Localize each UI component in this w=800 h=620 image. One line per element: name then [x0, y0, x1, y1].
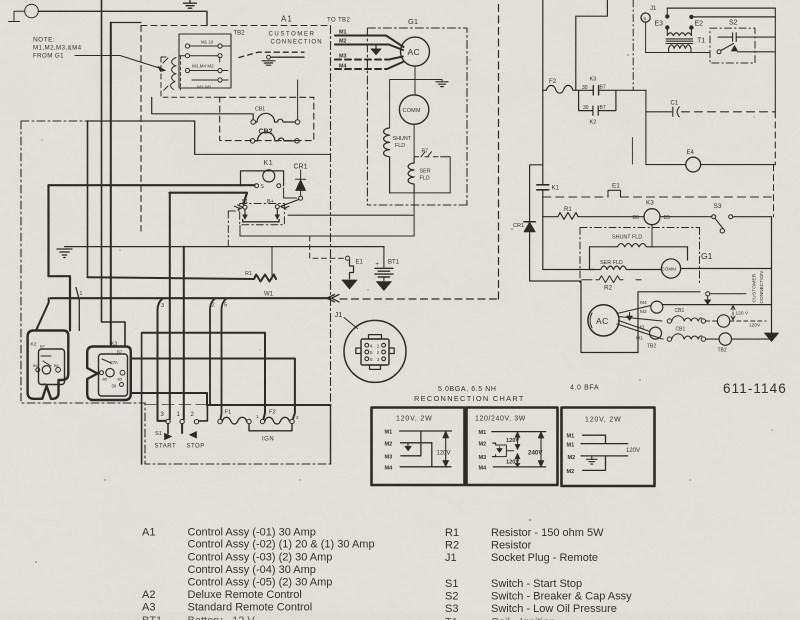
svg-text:R2: R2 [604, 285, 613, 292]
svg-text:E3: E3 [655, 21, 664, 28]
svg-text:120V: 120V [626, 448, 640, 454]
svg-text:M2,M4 M2: M2,M4 M2 [192, 64, 214, 69]
svg-text:3: 3 [377, 357, 380, 362]
svg-text:A1: A1 [281, 15, 293, 24]
breaker dashed box [220, 97, 314, 140]
svg-text:A1: A1 [142, 527, 155, 539]
battery BT1 [383, 247, 385, 268]
wire K3 STA [131, 359, 295, 419]
wire M1 to TB2 [335, 36, 404, 48]
svg-text:RECONNECTION CHART: RECONNECTION CHART [414, 394, 525, 403]
wire G1 bottom bus [390, 192, 451, 194]
boundary A1 right edge / remote boundary [330, 26, 332, 406]
note leader arrow [75, 56, 163, 70]
svg-text:120V: 120V [437, 451, 451, 457]
svg-text:M1 10: M1 10 [201, 40, 214, 45]
svg-text:CUSTOMER: CUSTOMER [269, 32, 316, 38]
leads M4 M2 M3 M1 [617, 306, 663, 340]
wire AC to COMM [414, 66, 416, 95]
svg-text:2: 2 [212, 303, 215, 309]
terminal TB2 lower [650, 327, 662, 339]
wire B+ to G1 [288, 214, 413, 216]
series field coil [408, 157, 414, 193]
wire inner corner [111, 22, 141, 24]
svg-text:S2: S2 [445, 591, 458, 603]
resistor R7 dashed [414, 152, 446, 157]
wire A1 lower boundary [88, 121, 195, 154]
wire CR1 branch [530, 165, 581, 281]
svg-text:K3: K3 [646, 200, 654, 207]
svg-text:TB2: TB2 [718, 348, 727, 354]
svg-text:120/240V, 3W: 120/240V, 3W [475, 416, 526, 423]
parts list right column [445, 527, 632, 620]
svg-text:Control Assy (-03) (2) 30 Amp: Control Assy (-03) (2) 30 Amp [188, 552, 333, 564]
wire terminal2 to ign bus [199, 405, 208, 421]
lamp E4 [646, 164, 686, 166]
wire slant from bus to K2 [36, 298, 49, 330]
svg-text:CONNECTION: CONNECTION [759, 271, 765, 304]
svg-text:B6: B6 [103, 378, 108, 382]
svg-text:M2: M2 [385, 441, 393, 447]
K1 assembly dash-dot box [240, 204, 285, 225]
svg-text:M2: M2 [568, 455, 576, 461]
svg-text:A2: A2 [142, 589, 155, 601]
svg-text:4.0 BFA: 4.0 BFA [570, 385, 599, 392]
svg-text:K2: K2 [31, 342, 37, 348]
svg-text:M2: M2 [339, 39, 347, 45]
ground at G1 [415, 80, 443, 82]
wire 2 jumper [210, 299, 215, 405]
svg-text:5: 5 [224, 303, 227, 309]
svg-text:B5: B5 [664, 215, 670, 221]
contact K1 right [537, 185, 549, 190]
svg-text:Control Assy (-01) 30 Amp: Control Assy (-01) 30 Amp [188, 527, 316, 539]
svg-text:S1: S1 [242, 199, 249, 205]
svg-text:R1: R1 [445, 527, 459, 539]
svg-text:COMM: COMM [403, 108, 421, 114]
svg-text:K3: K3 [590, 77, 597, 83]
resistor R2 dashed [582, 276, 641, 283]
circuit breaker CB1 [251, 120, 256, 125]
relay K2 inner [39, 349, 65, 385]
wire A2 boundary [152, 97, 254, 119]
svg-text:M3: M3 [385, 454, 393, 460]
svg-text:Standard Remote Control: Standard Remote Control [188, 602, 313, 614]
svg-text:1?: 1? [42, 383, 46, 387]
svg-text:120 V: 120 V [736, 311, 749, 317]
svg-text:IGN: IGN [262, 437, 274, 443]
wire left drop [645, 90, 647, 164]
contact B+ [275, 205, 279, 209]
node wire to E1 bus [240, 235, 414, 237]
svg-text:Socket Plug - Remote: Socket Plug - Remote [491, 552, 598, 564]
svg-text:2: 2 [377, 350, 380, 355]
solenoid plunger arrows [245, 209, 277, 215]
svg-text:K1: K1 [264, 160, 274, 167]
svg-text:S3: S3 [714, 203, 722, 210]
svg-text:Resistor: Resistor [491, 540, 532, 552]
svg-text:SHUNT FLD: SHUNT FLD [612, 235, 642, 241]
svg-text:CUSTOMER: CUSTOMER [752, 273, 758, 302]
svg-text:B6: B6 [633, 215, 639, 221]
terminal 3 [166, 419, 170, 423]
svg-text:M3: M3 [638, 325, 645, 331]
svg-text:S2: S2 [729, 20, 738, 27]
boundary dash-dot remote box [21, 121, 331, 464]
ground top symbol [184, 0, 197, 8]
svg-text:G1: G1 [408, 17, 418, 26]
wire M3 dashed to TB2 [335, 59, 389, 61]
svg-text:FLD: FLD [420, 176, 430, 182]
svg-text:B7: B7 [600, 105, 606, 111]
svg-text:START: START [155, 444, 177, 450]
svg-text:J1: J1 [650, 6, 657, 12]
svg-text:2: 2 [296, 415, 299, 420]
svg-text:R7: R7 [422, 149, 429, 155]
terminal row 2 [185, 54, 189, 58]
wire to S1 contact [170, 193, 248, 204]
circuit breaker CB2 [250, 139, 255, 144]
svg-text:R1: R1 [564, 207, 572, 213]
svg-text:120V: 120V [506, 438, 519, 444]
capacitor C1 [646, 107, 673, 116]
svg-text:F2: F2 [269, 410, 276, 416]
relay contact arcs [171, 58, 176, 90]
svg-text:SER: SER [420, 169, 431, 175]
J1 connector body [361, 339, 389, 365]
relay K3 inner [99, 354, 128, 396]
svg-text:NOTE:: NOTE: [33, 37, 55, 44]
commutator right [661, 259, 680, 278]
wire branch up [576, 0, 608, 90]
svg-text:120V, 2W: 120V, 2W [396, 416, 433, 423]
svg-text:M1,M2,M3,&M4: M1,M2,M3,&M4 [33, 45, 82, 52]
svg-text:240V: 240V [528, 450, 543, 457]
wire long vertical bundle 1 [102, 0, 126, 347]
svg-text:M4: M4 [339, 64, 347, 70]
svg-text:CB1: CB1 [255, 107, 265, 113]
wire top-left horizontal [39, 11, 208, 25]
ground inside A1 [267, 55, 271, 59]
dashed bus to right assembly [340, 0, 499, 299]
relay assembly K3 outline [87, 347, 131, 401]
generator AC right [588, 305, 619, 336]
relay K1 body [241, 171, 284, 186]
wire T1 secondary rail [646, 52, 710, 54]
svg-text:611-1146: 611-1146 [723, 381, 787, 396]
svg-text:R1: R1 [245, 271, 252, 277]
svg-text:M1: M1 [479, 430, 487, 436]
reconnection chart box3 120V 2W [562, 408, 655, 487]
ground stub at AC [629, 313, 631, 316]
switch S3 [712, 215, 716, 219]
svg-text:A3: A3 [142, 602, 155, 614]
component E? top-left circle [25, 4, 39, 18]
solenoid bar [243, 220, 279, 222]
breaker CB1 upper [667, 319, 671, 323]
svg-text:Deluxe Remote Control: Deluxe Remote Control [188, 589, 302, 601]
svg-text:6: 6 [643, 16, 646, 22]
terminal row M1-10 [185, 44, 189, 48]
switch S1 arrows [167, 424, 169, 434]
wire W1 [51, 297, 329, 299]
svg-text:Control Assy (-04) 30 Amp: Control Assy (-04) 30 Amp [188, 564, 316, 576]
svg-text:B7: B7 [117, 350, 123, 355]
svg-text:AC: AC [408, 47, 421, 57]
svg-text:CONNECTION: CONNECTION [271, 40, 323, 46]
terminal row M2-M4 [185, 68, 189, 72]
svg-text:B6: B6 [33, 364, 38, 368]
diode CR1 left [296, 170, 306, 179]
ground right rail [765, 333, 779, 342]
fuse F2 right on main line [543, 85, 593, 93]
svg-text:5: 5 [370, 350, 373, 355]
switch S2 dashed box [710, 28, 755, 63]
svg-text:S1: S1 [155, 431, 162, 437]
svg-text:E2: E2 [695, 21, 704, 28]
measure arrows 120V [732, 307, 734, 319]
svg-text:E4: E4 [687, 150, 695, 156]
svg-text:CB1: CB1 [676, 327, 686, 333]
generator G1 right dashed box [580, 228, 700, 286]
reconnection chart box 120V 2W [372, 408, 465, 486]
wire K3 30 [131, 393, 207, 405]
ground on control bus [65, 246, 385, 248]
resistor R1 right [543, 213, 644, 220]
svg-text:M2: M2 [567, 469, 575, 475]
relay assembly K2 outline [28, 331, 69, 399]
generator AC right box [581, 281, 700, 353]
resistor R1 [88, 275, 277, 282]
wire M2 to TB2 [335, 45, 403, 51]
svg-text:E1: E1 [356, 260, 364, 266]
transformer T1 [667, 28, 691, 36]
contact K3 right [593, 86, 598, 95]
wire right rail [774, 8, 776, 112]
svg-text:G1: G1 [701, 251, 713, 261]
svg-text:M1: M1 [385, 430, 393, 436]
wire ign bus [207, 404, 331, 406]
W1 arrowheads [327, 295, 339, 302]
svg-text:M1: M1 [567, 442, 575, 448]
svg-text:30: 30 [583, 105, 589, 111]
relay coil K3 right [644, 209, 660, 225]
svg-text:M1: M1 [339, 30, 347, 36]
shunt field coil [384, 128, 390, 193]
wire shunt branch [390, 80, 415, 129]
breaker CB1 lower [667, 337, 671, 341]
svg-text:1: 1 [80, 291, 83, 297]
generator G1 AC winding [401, 37, 430, 66]
wire G1 to K1 bus [413, 193, 415, 236]
fuse F1 [218, 419, 222, 423]
wire right rail down [771, 217, 773, 333]
socket J1 right [641, 13, 650, 22]
wire right spine [543, 0, 594, 270]
switch S2 lever [717, 50, 721, 54]
terminal E1 [346, 256, 350, 260]
svg-text:B5: B5 [54, 364, 59, 368]
svg-text:M1: M1 [636, 336, 643, 342]
svg-text:J1: J1 [335, 310, 343, 319]
terminal block TB2 box [179, 34, 231, 88]
terminal 2 [194, 420, 198, 424]
socket plug J1 leader [344, 318, 358, 329]
svg-text:1: 1 [377, 343, 380, 348]
wire S1 drop [239, 226, 241, 237]
svg-text:E1: E1 [612, 183, 620, 190]
svg-text:30: 30 [112, 384, 117, 389]
svg-text:+: + [376, 262, 380, 268]
terminal TB2 upper [651, 301, 663, 313]
wire S to K1 [49, 184, 255, 186]
fuse F2 [260, 419, 264, 423]
svg-text:Control Assy (-02) (1) 20 & (1: Control Assy (-02) (1) 20 & (1) 30 Amp [188, 539, 375, 551]
svg-text:AC: AC [596, 316, 609, 326]
svg-text:M1 M1: M1 M1 [197, 85, 212, 91]
svg-text:FLD: FLD [395, 143, 405, 149]
wire M4 dashed to TB2 [335, 68, 387, 70]
svg-text:S1: S1 [445, 578, 458, 590]
svg-text:K3: K3 [111, 342, 117, 348]
svg-text:M2: M2 [479, 442, 487, 448]
svg-text:5.0BGA, 6.5 NH: 5.0BGA, 6.5 NH [438, 386, 497, 393]
wire top rail [667, 7, 775, 9]
commutator COMM [399, 95, 428, 124]
dashed wire E1 right [543, 196, 608, 198]
field box with shunt coil [590, 244, 688, 247]
svg-text:SHUNT: SHUNT [393, 136, 412, 142]
wire staircase left [49, 185, 71, 330]
wire K1 B+ jog [284, 188, 297, 198]
svg-text:TB2: TB2 [647, 344, 656, 350]
wire from A1 to breaker box [297, 80, 299, 120]
svg-text:Switch - Start Stop: Switch - Start Stop [491, 578, 582, 590]
svg-text:T1: T1 [697, 38, 705, 45]
svg-text:K2: K2 [590, 120, 597, 126]
svg-text:COMM: COMM [662, 267, 677, 272]
svg-text:W1: W1 [264, 292, 274, 298]
svg-text:FROM G1: FROM G1 [33, 53, 64, 60]
svg-text:M4: M4 [479, 465, 488, 471]
svg-text:M4: M4 [385, 465, 394, 471]
svg-text:SER FLD: SER FLD [600, 260, 623, 266]
svg-text:R2: R2 [445, 540, 459, 552]
svg-text:6: 6 [370, 357, 373, 362]
svg-text:TB2: TB2 [234, 31, 246, 37]
svg-text:CR1: CR1 [513, 223, 524, 229]
svg-text:M2: M2 [640, 309, 647, 315]
svg-text:120V: 120V [506, 460, 519, 466]
socket plug J1 circle [344, 320, 406, 382]
terminal E3 [666, 15, 669, 18]
svg-text:BT1: BT1 [388, 260, 400, 266]
svg-text:CB1: CB1 [675, 308, 685, 314]
svg-text:B7: B7 [40, 344, 46, 349]
svg-text:M3: M3 [479, 455, 487, 461]
terminal B+ upper [277, 184, 281, 188]
svg-text:Switch - Breaker & Cap Assy: Switch - Breaker & Cap Assy [491, 591, 632, 603]
dashed wire to E1 [310, 236, 346, 258]
svg-text:M4: M4 [640, 300, 647, 306]
ground top-left bracket [9, 11, 25, 21]
svg-text:4: 4 [370, 343, 373, 348]
svg-text:STOP: STOP [187, 444, 205, 450]
svg-text:M1: M1 [567, 434, 575, 440]
generator G1 dashed boundary [367, 28, 467, 205]
svg-text:TO TB2: TO TB2 [327, 18, 350, 24]
reconnection chart box 120/240V 3W [467, 408, 558, 486]
svg-text:1: 1 [256, 414, 259, 419]
wire long vertical bundle 2 [110, 23, 112, 347]
svg-text:CB2: CB2 [259, 129, 273, 136]
wire M4 row [663, 304, 772, 306]
svg-text:F2: F2 [549, 78, 557, 85]
relay inner dashed box [161, 57, 220, 97]
svg-text:B7: B7 [600, 85, 606, 91]
contact K2 branch [579, 90, 616, 115]
svg-text:M3: M3 [339, 54, 347, 60]
customer connection terminal [706, 292, 710, 296]
control assembly A1 dashed box [141, 25, 330, 27]
parts list left column [142, 527, 375, 620]
boundary dash right of G1 [632, 0, 634, 90]
wire 5 jumper [221, 299, 227, 419]
terminal S [255, 184, 259, 188]
svg-text:120V, 2W: 120V, 2W [585, 417, 622, 424]
wire 1 slant into K2 [76, 288, 79, 331]
svg-text:3: 3 [161, 303, 164, 309]
svg-text:120V: 120V [749, 323, 761, 329]
wire COMM down [413, 124, 415, 157]
svg-text:30: 30 [582, 85, 588, 91]
svg-text:F1: F1 [225, 410, 232, 416]
diode CR1 right [524, 221, 535, 223]
wire B+ to R1 [271, 247, 273, 279]
svg-text:CR1: CR1 [294, 164, 308, 171]
svg-text:K1: K1 [552, 186, 560, 192]
capacitor in S2 [718, 33, 775, 42]
svg-text:B5: B5 [118, 378, 123, 382]
svg-text:B+: B+ [267, 199, 274, 205]
wire 2 drop [182, 247, 184, 433]
wire K3 B7 [142, 333, 265, 419]
wire 1 drop [169, 193, 171, 420]
wire to bottom bus [141, 333, 143, 464]
series field coil right [590, 266, 662, 270]
terminal 1 [180, 419, 184, 423]
J1 pins [365, 343, 369, 347]
contact S1 [243, 205, 247, 209]
svg-text:STA: STA [110, 360, 118, 365]
terminal E2 [690, 15, 693, 18]
wire 3 drop [158, 299, 166, 421]
svg-text:Resistor - 150 ohm 5W: Resistor - 150 ohm 5W [491, 527, 604, 539]
wire IGN [249, 424, 292, 431]
svg-text:Control Assy (-05) (2) 30 Amp: Control Assy (-05) (2) 30 Amp [188, 577, 333, 589]
ground on M2 wire [375, 45, 377, 49]
svg-text:C1: C1 [671, 101, 679, 107]
terminal row M1-M1 [218, 78, 222, 82]
svg-text:J1: J1 [445, 552, 457, 564]
